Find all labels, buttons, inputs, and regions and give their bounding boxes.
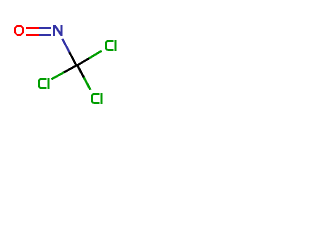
bond C-Cl southwest black half [64,66,77,73]
bond O=N double, top line red half [26,27,39,29]
bond C-Cl northeast black half [76,58,89,66]
bond C-Cl northeast green half [89,51,102,59]
atom Cl bottom: l glyph [101,93,103,104]
bond N-C black half [69,52,76,65]
bond C-Cl south green half [84,77,91,89]
atom Cl left: l glyph [48,78,50,89]
atom N (blue) [54,25,62,36]
atom Cl right: l glyph [115,40,117,51]
atom Cl bottom (green): C glyph [92,94,100,103]
bond O=N double, bottom line blue half [39,34,51,36]
bond C-Cl southwest green half [51,72,64,79]
bond O=N double, top line blue half [39,27,51,29]
bond O=N double, bottom line red half [26,34,39,36]
bond N-C blue half [62,39,69,52]
background [0,0,130,130]
atom Cl right (green): C glyph [106,41,114,50]
atom Cl left (green): C glyph [39,79,47,88]
atom O (red) [14,25,24,36]
bond C-Cl south black half [77,65,84,77]
